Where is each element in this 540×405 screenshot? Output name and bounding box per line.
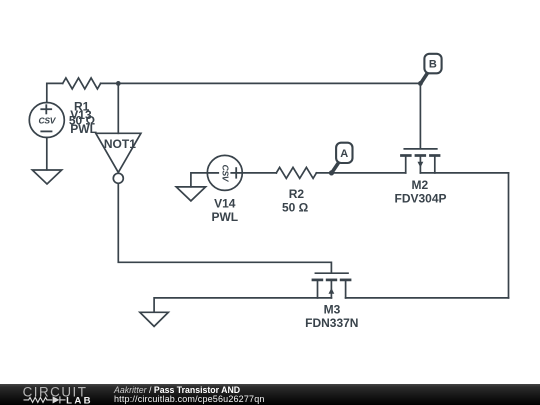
footer url line bbox=[114, 394, 265, 404]
voltage source V14 bbox=[207, 155, 242, 190]
svg-text:50 Ω: 50 Ω bbox=[282, 201, 309, 215]
wire NOT1 output to M3 gate bbox=[118, 183, 331, 272]
wire M3 source to ground bbox=[154, 298, 331, 312]
resistor R1 bbox=[63, 78, 101, 89]
svg-text:V14: V14 bbox=[214, 197, 236, 211]
label R2 50 Ohm bbox=[282, 187, 309, 215]
node junction at NOT1 input bbox=[116, 81, 121, 86]
ground below V14 bbox=[176, 187, 205, 201]
svg-text:R2: R2 bbox=[289, 187, 305, 201]
transistor M3 drain lead bbox=[345, 281, 347, 298]
svg-text:M3: M3 bbox=[324, 303, 341, 317]
wire NOT1 input bbox=[117, 83, 119, 133]
svg-text:FDN337N: FDN337N bbox=[305, 316, 358, 330]
svg-text:A: A bbox=[340, 148, 348, 160]
svg-text:PWL: PWL bbox=[70, 122, 97, 136]
wire M2 drain to right rail bbox=[420, 172, 508, 174]
transistor M2 channel bars bbox=[400, 154, 440, 157]
svg-text:B: B bbox=[429, 59, 437, 71]
wire resistor R1 to node B bbox=[101, 82, 421, 84]
ground below M3 bbox=[140, 312, 168, 326]
wire V13 to ground bbox=[46, 138, 48, 170]
node A callout bbox=[336, 143, 352, 163]
svg-text:V13: V13 bbox=[70, 108, 92, 122]
svg-text:CSV: CSV bbox=[221, 165, 231, 183]
NOT gate NOT1 bbox=[96, 133, 141, 172]
transistor M2 drain lead bbox=[434, 157, 436, 173]
label M3 FDN337N bbox=[305, 303, 358, 330]
ground below V13 bbox=[32, 170, 61, 184]
wire right rail to M3 drain bbox=[346, 297, 509, 299]
svg-text:NOT1: NOT1 bbox=[104, 137, 136, 151]
node A callout pointer bbox=[332, 162, 339, 172]
label V14 PWL bbox=[211, 197, 238, 224]
resistor R2 bbox=[276, 167, 316, 178]
svg-text:LAB: LAB bbox=[66, 396, 93, 405]
wire node B to M2 gate bbox=[419, 83, 421, 148]
transistor M2 body lead with arrow bbox=[419, 157, 421, 173]
wire top rail from V13 to node B bbox=[47, 83, 63, 102]
CircuitLab logo bbox=[0, 384, 110, 405]
transistor M3 body lead with arrow bbox=[330, 281, 332, 298]
wire R2 to M2 source bbox=[316, 172, 405, 174]
node B junction dot bbox=[418, 81, 423, 86]
node B callout bbox=[424, 54, 441, 74]
transistor M3 channel bars bbox=[312, 279, 352, 282]
wire right rail down bbox=[508, 173, 510, 298]
transistor M3 FDN337N (NMOS) gate bar bbox=[315, 272, 348, 274]
transistor M2 FDV304P (PMOS) gate bar bbox=[404, 148, 437, 150]
svg-text:PWL: PWL bbox=[211, 210, 238, 224]
footer bar bbox=[0, 384, 540, 405]
svg-text:FDV304P: FDV304P bbox=[394, 192, 446, 206]
label M2 FDV304P bbox=[394, 178, 446, 205]
footer credit line bbox=[114, 385, 240, 395]
node B callout pointer bbox=[421, 73, 428, 83]
svg-text:CSV: CSV bbox=[39, 116, 57, 126]
transistor M2 source lead bbox=[405, 157, 407, 173]
node A junction dot bbox=[329, 170, 334, 175]
label R1 50 Ohm bbox=[69, 99, 96, 127]
label V13 PWL bbox=[70, 108, 97, 136]
svg-text:M2: M2 bbox=[411, 178, 428, 192]
transistor M3 source lead bbox=[317, 281, 319, 298]
wire V14 to ground bbox=[191, 173, 207, 187]
wire V14 to resistor R2 bbox=[242, 172, 276, 174]
voltage source V13 bbox=[29, 103, 64, 138]
